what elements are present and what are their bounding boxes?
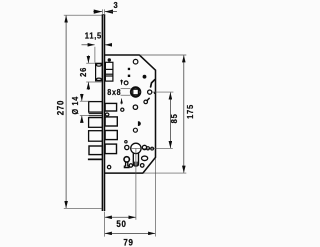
slot ellipse bbox=[105, 113, 109, 116]
screw dot top bbox=[108, 58, 111, 61]
bolt 4 bbox=[89, 146, 102, 155]
dot on case edge bbox=[154, 92, 156, 94]
lock case outline bbox=[105, 55, 156, 173]
svg-text:85: 85 bbox=[169, 113, 178, 123]
ext: case bottom to 175 dim bbox=[144, 172, 186, 174]
dim 3 ext lines bbox=[102, 9, 104, 13]
spindle square 8x8 bbox=[133, 89, 139, 95]
dim 11,5 ext line bbox=[94, 47, 96, 63]
dim 79 bbox=[105, 232, 155, 234]
spindle center ext line bbox=[152, 91, 173, 93]
dim 270 bbox=[65, 16, 67, 208]
bolt 2 bbox=[89, 118, 103, 128]
tiny ring left of cylinder bbox=[125, 141, 127, 143]
8x8 leader lines bbox=[121, 89, 131, 96]
8x8 arrows bbox=[121, 79, 123, 104]
spindle hub bbox=[131, 87, 140, 96]
label 11,5 bbox=[85, 31, 102, 40]
svg-text:175: 175 bbox=[186, 104, 195, 119]
tail bbox=[147, 98, 149, 100]
dim 85 bbox=[169, 93, 171, 149]
small keyhole (faceplate cylinder view) bbox=[124, 157, 129, 162]
filled dot right bbox=[143, 75, 147, 79]
dim 11,5 bbox=[82, 44, 111, 46]
dim 26 ext lines bbox=[86, 63, 102, 82]
hole left of cylinder bbox=[125, 145, 129, 149]
bolt 3 bbox=[89, 131, 103, 142]
bolt tail D bbox=[105, 144, 116, 154]
label 8x8 bbox=[107, 88, 121, 97]
latch tail stacked rects bbox=[105, 62, 113, 81]
hole mid bbox=[133, 105, 137, 109]
svg-text:Ø 14: Ø 14 bbox=[71, 96, 80, 114]
latch bolt bbox=[96, 63, 103, 81]
dim 175 bbox=[183, 55, 185, 172]
label 79 bbox=[123, 237, 133, 247]
D detent bbox=[138, 121, 141, 126]
hole right of hub bbox=[148, 90, 152, 94]
square dot 2 bbox=[128, 75, 130, 77]
ext: case top to 175 dim bbox=[139, 54, 186, 56]
hole bottom left bbox=[107, 165, 110, 168]
bottom ext lines bbox=[104, 159, 155, 237]
dim 3 bbox=[93, 11, 117, 13]
slat under bolt 1 bbox=[89, 113, 103, 115]
svg-text:11,5: 11,5 bbox=[85, 31, 102, 40]
lever dash at right edge bbox=[151, 80, 155, 87]
cylinder center ext line bbox=[132, 147, 173, 149]
label Ø14 bbox=[71, 96, 80, 114]
hole lower mid bbox=[133, 128, 137, 132]
hole left of hub bbox=[124, 81, 128, 85]
label 26 bbox=[79, 67, 88, 77]
hole below ellipse bbox=[140, 164, 144, 168]
bolt tail A bbox=[105, 103, 117, 111]
bolt tail B bbox=[105, 117, 117, 126]
dim Ø14 ext lines bbox=[80, 101, 90, 115]
faceplate (front strip, side view) bbox=[102, 15, 105, 212]
holes right of cylinder bbox=[142, 145, 146, 149]
dim 270 ext lines bbox=[64, 15, 102, 208]
hub centerline bbox=[131, 91, 141, 93]
label 270 bbox=[55, 100, 66, 115]
dim 26 bbox=[87, 55, 89, 90]
hole with tail below hub bbox=[144, 100, 148, 104]
slat under bolt 4 bbox=[88, 159, 103, 161]
label 175 bbox=[186, 104, 195, 119]
svg-text:79: 79 bbox=[123, 237, 133, 247]
svg-text:270: 270 bbox=[55, 100, 66, 115]
cylinder vertical centerline bbox=[135, 148, 137, 219]
label 50 bbox=[116, 219, 126, 230]
bolt tail C bbox=[105, 131, 117, 140]
svg-text:26: 26 bbox=[79, 67, 88, 77]
euro cylinder profile bbox=[131, 143, 141, 153]
dim Ø14 arrows bbox=[81, 94, 83, 123]
hole top-right bbox=[133, 59, 138, 64]
dim 50 bbox=[105, 216, 136, 218]
svg-text:3: 3 bbox=[113, 0, 118, 9]
small hole left bbox=[121, 108, 124, 111]
svg-text:8x8: 8x8 bbox=[107, 88, 121, 97]
label 3 bbox=[113, 0, 118, 9]
square dot 1 bbox=[128, 68, 130, 70]
hole right of keyhole foot bbox=[129, 164, 132, 167]
ellipse hole right of keyhole bbox=[142, 156, 148, 161]
label 85 bbox=[169, 113, 178, 123]
bolt 1 head bbox=[89, 102, 103, 113]
svg-text:50: 50 bbox=[116, 219, 126, 230]
